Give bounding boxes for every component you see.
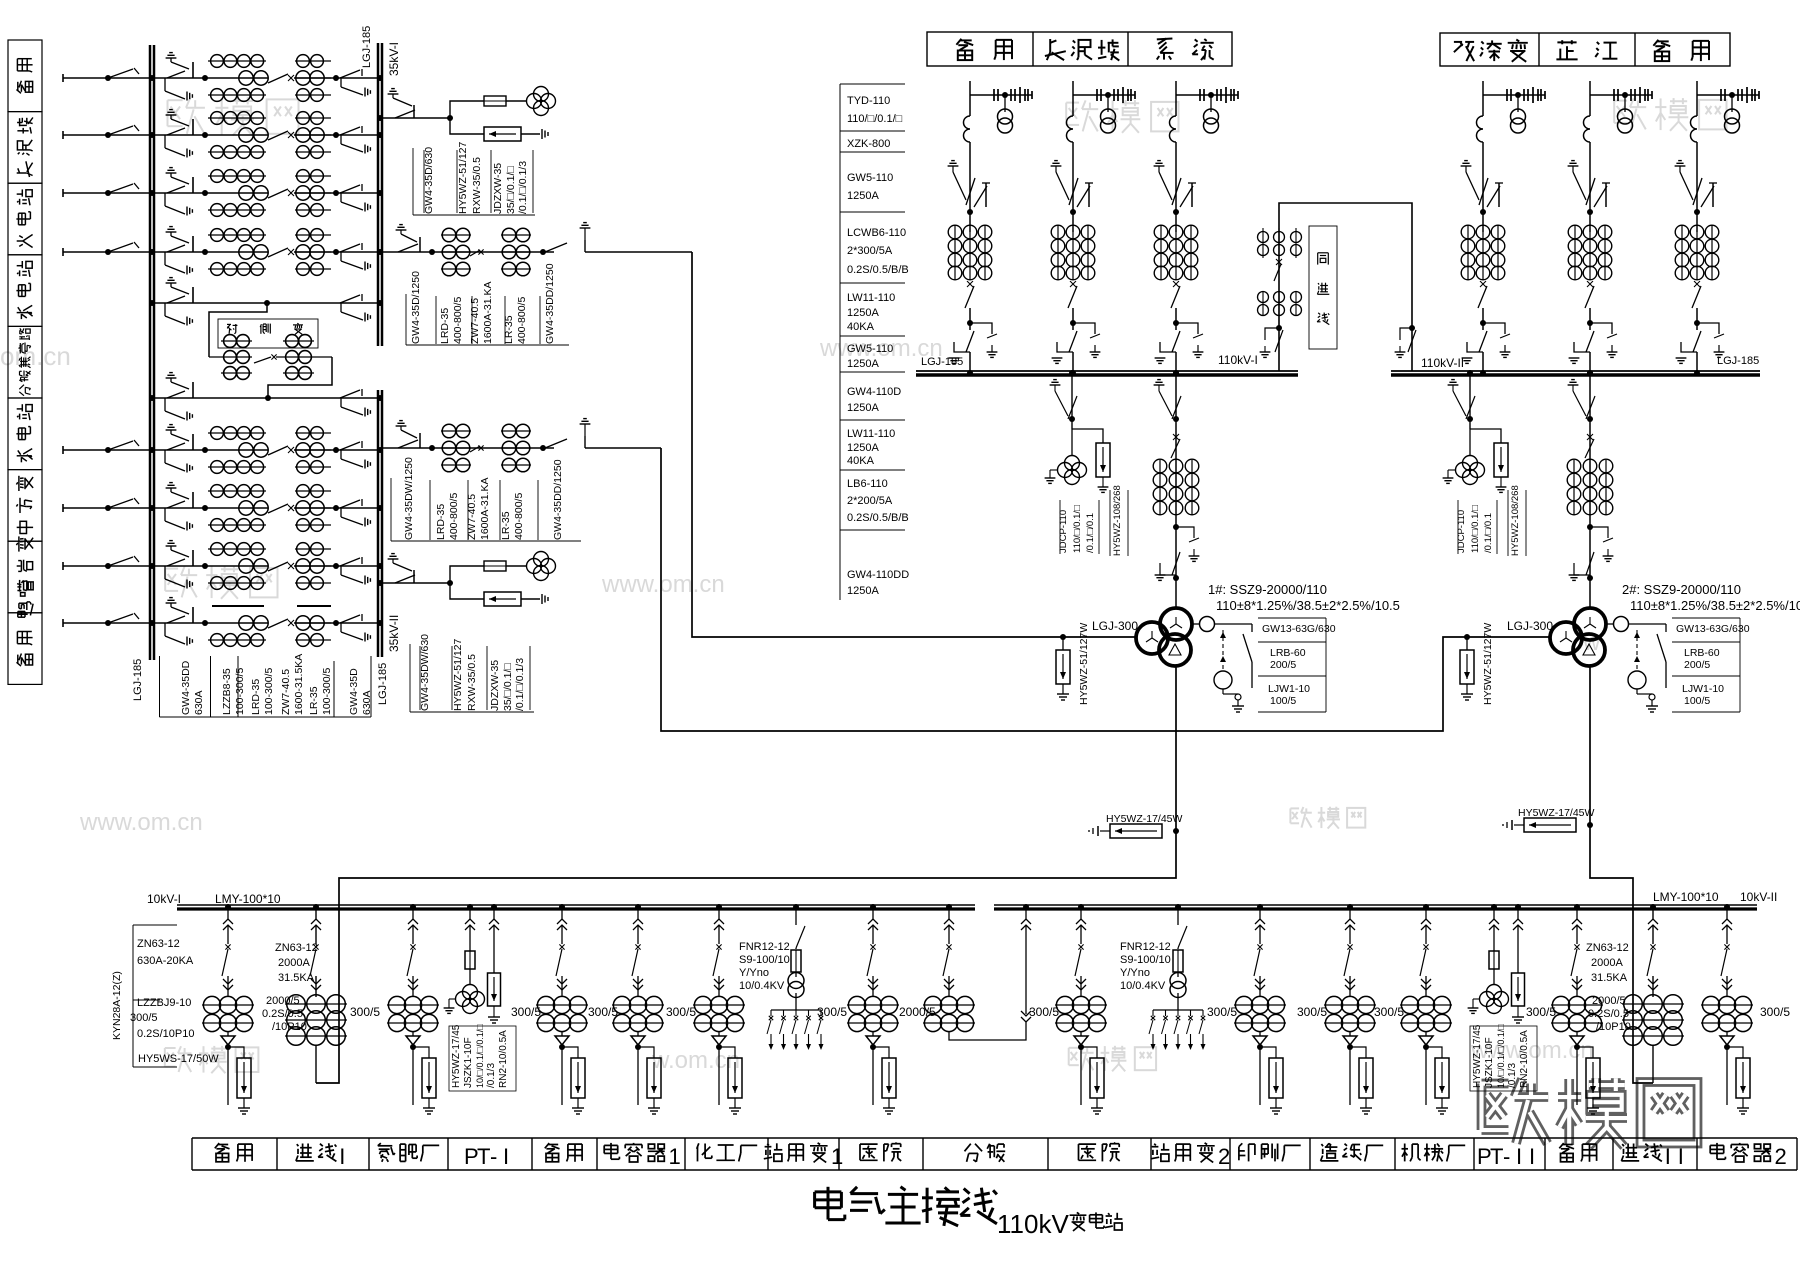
svg-text:200/5: 200/5 — [1270, 659, 1296, 671]
svg-text:Y/Yno: Y/Yno — [739, 967, 769, 979]
svg-text:100/5: 100/5 — [1684, 695, 1710, 707]
svg-text:LGJ-185: LGJ-185 — [921, 356, 963, 368]
svg-text:HY5WZ-17/45W: HY5WZ-17/45W — [1518, 807, 1595, 819]
svg-text:630A: 630A — [361, 690, 373, 715]
svg-text:HY5WZ-17/45W: HY5WZ-17/45W — [1106, 813, 1183, 825]
svg-text:GW4-35DW/1250: GW4-35DW/1250 — [403, 457, 415, 540]
svg-text:1: 1 — [831, 1144, 843, 1169]
svg-text:1250A: 1250A — [847, 585, 879, 597]
svg-text:0.2S/0.5/B/B: 0.2S/0.5/B/B — [847, 264, 909, 276]
svg-text:0.2S/0.5: 0.2S/0.5 — [262, 1008, 303, 1020]
svg-text:400-800/5: 400-800/5 — [452, 297, 464, 344]
svg-text:10/0.4KV: 10/0.4KV — [1120, 980, 1166, 992]
svg-text:T: T — [477, 1144, 490, 1169]
svg-text:I: I — [1665, 1144, 1671, 1169]
svg-text:2: 2 — [1218, 1144, 1230, 1169]
svg-text:/0.1/3: /0.1/3 — [1507, 1063, 1518, 1088]
svg-text:1250A: 1250A — [847, 442, 879, 454]
svg-text:1250A: 1250A — [847, 358, 879, 370]
svg-text:110/□/0.1/□: 110/□/0.1/□ — [847, 113, 903, 125]
svg-text:1600A-31.KA: 1600A-31.KA — [479, 478, 491, 540]
svg-text:100-300/5: 100-300/5 — [234, 668, 246, 715]
svg-text:LMY-100*10: LMY-100*10 — [1653, 890, 1719, 904]
svg-text:100/5: 100/5 — [1270, 695, 1296, 707]
svg-text:300/5: 300/5 — [588, 1005, 618, 1019]
svg-text:35kV-II: 35kV-II — [387, 615, 401, 652]
svg-text:LZZB8-35: LZZB8-35 — [221, 668, 233, 715]
svg-text:T: T — [1490, 1144, 1503, 1169]
svg-text:LRD-35: LRD-35 — [439, 308, 451, 344]
svg-text:LW11-110: LW11-110 — [847, 292, 895, 304]
svg-text:I: I — [1678, 1144, 1684, 1169]
svg-text:LJW1-10: LJW1-10 — [1682, 683, 1724, 695]
svg-text:LB6-110: LB6-110 — [847, 478, 888, 490]
svg-text:10kV-II: 10kV-II — [1740, 890, 1777, 904]
svg-text:/0.1/3: /0.1/3 — [486, 1063, 497, 1088]
svg-text:S9-100/10: S9-100/10 — [1120, 954, 1171, 966]
svg-text:2000/5: 2000/5 — [899, 1005, 936, 1019]
svg-text:RXW-35/0.5: RXW-35/0.5 — [466, 654, 478, 711]
svg-text:RN2-10/0.5A: RN2-10/0.5A — [1519, 1030, 1530, 1088]
svg-text:110kV: 110kV — [997, 1209, 1069, 1239]
svg-text:/10P10: /10P10 — [272, 1021, 307, 1033]
svg-text:1: 1 — [669, 1144, 681, 1169]
svg-text:2#: SSZ9-20000/110: 2#: SSZ9-20000/110 — [1622, 582, 1741, 597]
svg-text:GW4-35D: GW4-35D — [348, 668, 360, 715]
svg-text:LGJ-300: LGJ-300 — [1507, 619, 1553, 633]
svg-text:1#: SSZ9-20000/110: 1#: SSZ9-20000/110 — [1208, 582, 1327, 597]
svg-text:RXW-35/0.5: RXW-35/0.5 — [471, 157, 483, 214]
svg-text:I: I — [503, 1144, 509, 1169]
svg-text:0.2S/0.5: 0.2S/0.5 — [1588, 1008, 1629, 1020]
svg-text:GW4-35DW/630: GW4-35DW/630 — [419, 634, 431, 711]
svg-text:-: - — [490, 1144, 497, 1169]
svg-text:40KA: 40KA — [847, 321, 875, 333]
svg-text:300/5: 300/5 — [130, 1012, 158, 1024]
svg-text:I: I — [1529, 1144, 1535, 1169]
svg-text:31.5KA: 31.5KA — [1591, 972, 1628, 984]
svg-text:10kV-I: 10kV-I — [147, 892, 181, 906]
svg-text:300/5: 300/5 — [1526, 1005, 1556, 1019]
svg-text:LGJ-185: LGJ-185 — [132, 659, 144, 701]
svg-text:LGJ-300: LGJ-300 — [1092, 619, 1138, 633]
svg-text:/0.1/□/0.1: /0.1/□/0.1 — [1085, 513, 1096, 553]
svg-text:10/0.4KV: 10/0.4KV — [739, 980, 785, 992]
svg-text:HY5WZ-108/268: HY5WZ-108/268 — [1112, 485, 1123, 556]
svg-text:2000/5: 2000/5 — [1592, 995, 1626, 1007]
svg-text:400-800/5: 400-800/5 — [516, 297, 528, 344]
svg-text:300/5: 300/5 — [350, 1005, 380, 1019]
svg-text:300/5: 300/5 — [1760, 1005, 1790, 1019]
svg-text:ZN63-12: ZN63-12 — [1586, 942, 1629, 954]
svg-text:2*300/5A: 2*300/5A — [847, 245, 893, 257]
svg-text:GW4-35D/1250: GW4-35D/1250 — [410, 271, 422, 344]
svg-text:LGJ-185: LGJ-185 — [361, 26, 373, 68]
svg-text:110/□/0.1/□: 110/□/0.1/□ — [1072, 505, 1083, 553]
svg-text:XZK-800: XZK-800 — [847, 138, 890, 150]
svg-text:LMY-100*10: LMY-100*10 — [215, 892, 281, 906]
svg-text:GW4-35DD/1250: GW4-35DD/1250 — [544, 263, 556, 344]
svg-text:FNR12-12: FNR12-12 — [1120, 941, 1171, 953]
svg-text:Y/Yno: Y/Yno — [1120, 967, 1150, 979]
svg-text:JSZK1-10F: JSZK1-10F — [463, 1037, 474, 1088]
svg-text:KYN28A-12(Z): KYN28A-12(Z) — [111, 971, 123, 1040]
svg-text:35/□/0.1/□: 35/□/0.1/□ — [502, 663, 514, 711]
svg-text:-: - — [1503, 1144, 1510, 1169]
svg-text:110/□/0.1/□: 110/□/0.1/□ — [1470, 505, 1481, 553]
svg-text:JDZXW-35: JDZXW-35 — [492, 163, 504, 214]
svg-text:LR-35: LR-35 — [500, 511, 512, 540]
svg-text:GW4-110D: GW4-110D — [847, 386, 901, 398]
svg-text:GW13-63G/630: GW13-63G/630 — [1262, 623, 1336, 635]
svg-text:HY5WZ-17/45: HY5WZ-17/45 — [451, 1024, 462, 1088]
svg-text:LRD-35: LRD-35 — [435, 504, 447, 540]
svg-text:100-300/5: 100-300/5 — [321, 668, 333, 715]
svg-text:400-800/5: 400-800/5 — [448, 493, 460, 540]
svg-text:HY5WZ-51/127W: HY5WZ-51/127W — [1482, 623, 1494, 705]
svg-text:HY5WZ-108/268: HY5WZ-108/268 — [1510, 485, 1521, 556]
svg-text:300/5: 300/5 — [1374, 1005, 1404, 1019]
svg-text:10/□/0.1/□/0.1/□: 10/□/0.1/□/0.1/□ — [475, 1024, 485, 1088]
svg-text:www.om.cn: www.om.cn — [601, 571, 725, 598]
svg-text:JSZK1-10F: JSZK1-10F — [1484, 1037, 1495, 1088]
svg-text:300/5: 300/5 — [511, 1005, 541, 1019]
svg-text:110kV-I: 110kV-I — [1218, 353, 1258, 367]
svg-text:FNR12-12: FNR12-12 — [739, 941, 790, 953]
svg-text:TYD-110: TYD-110 — [847, 95, 890, 107]
svg-text:LRD-35: LRD-35 — [250, 679, 262, 715]
svg-text:1250A: 1250A — [847, 307, 879, 319]
svg-text:35/□/0.1/□: 35/□/0.1/□ — [505, 166, 517, 214]
svg-text:S9-100/10: S9-100/10 — [739, 954, 790, 966]
svg-text:w.om.cn: w.om.cn — [651, 1047, 740, 1074]
svg-text:/10P10: /10P10 — [1596, 1021, 1631, 1033]
svg-text:1600A-31.KA: 1600A-31.KA — [482, 282, 494, 344]
svg-text:630A-20KA: 630A-20KA — [137, 955, 194, 967]
svg-text:1250A: 1250A — [847, 190, 879, 202]
svg-text:LZZBJ9-10: LZZBJ9-10 — [137, 997, 191, 1009]
svg-text:LCWB6-110: LCWB6-110 — [847, 227, 906, 239]
svg-text:400-800/5: 400-800/5 — [513, 493, 525, 540]
svg-text:LR-35: LR-35 — [308, 686, 320, 715]
svg-text:LRB-60: LRB-60 — [1270, 647, 1306, 659]
svg-text:GW4-35DD: GW4-35DD — [180, 660, 192, 715]
svg-text:110±8*1.25%/38.5±2*2.5%/10.5: 110±8*1.25%/38.5±2*2.5%/10.5 — [1630, 598, 1800, 613]
svg-text:GW4-110DD: GW4-110DD — [847, 569, 909, 581]
svg-text:2000A: 2000A — [1591, 957, 1623, 969]
svg-text:/0.1/□/0.1/3: /0.1/□/0.1/3 — [517, 161, 529, 214]
svg-text:HY5WS-17/50W: HY5WS-17/50W — [138, 1053, 219, 1065]
svg-text:40KA: 40KA — [847, 455, 875, 467]
svg-text:1600-31.5KA: 1600-31.5KA — [293, 654, 305, 715]
svg-text:GW5-110: GW5-110 — [847, 343, 893, 355]
svg-text:ZN63-12: ZN63-12 — [137, 938, 180, 950]
svg-text:HY5WZ-17/45: HY5WZ-17/45 — [1472, 1024, 1483, 1088]
svg-text:LGJ-185: LGJ-185 — [1717, 355, 1759, 367]
svg-text:110±8*1.25%/38.5±2*2.5%/10.5: 110±8*1.25%/38.5±2*2.5%/10.5 — [1216, 598, 1400, 613]
svg-text:300/5: 300/5 — [666, 1005, 696, 1019]
svg-text:/0.1/□/0.1: /0.1/□/0.1 — [1483, 513, 1494, 553]
svg-text:0.2S/10P10: 0.2S/10P10 — [137, 1028, 195, 1040]
svg-text:31.5KA: 31.5KA — [278, 972, 315, 984]
svg-text:HY5WZ-51/127W: HY5WZ-51/127W — [1078, 623, 1090, 705]
svg-text:I: I — [339, 1144, 345, 1169]
svg-text:0.2S/0.5/B/B: 0.2S/0.5/B/B — [847, 512, 909, 524]
svg-text:2000/5: 2000/5 — [266, 995, 300, 1007]
svg-text:JDZXW-35: JDZXW-35 — [489, 660, 501, 711]
svg-text:300/5: 300/5 — [1207, 1005, 1237, 1019]
svg-text:1250A: 1250A — [847, 402, 879, 414]
svg-text:LJW1-10: LJW1-10 — [1268, 683, 1310, 695]
svg-text:200/5: 200/5 — [1684, 659, 1710, 671]
svg-text:LRB-60: LRB-60 — [1684, 647, 1720, 659]
svg-text:LGJ-185: LGJ-185 — [377, 663, 389, 705]
svg-text:100-300/5: 100-300/5 — [263, 668, 275, 715]
svg-text:2: 2 — [1775, 1144, 1787, 1169]
svg-text:630A: 630A — [193, 690, 205, 715]
svg-text:110kV-II: 110kV-II — [1421, 356, 1464, 370]
svg-text:GW4-35DD/1250: GW4-35DD/1250 — [552, 459, 564, 540]
svg-text:10/□/0.1/□/0.1/□: 10/□/0.1/□/0.1/□ — [1496, 1024, 1506, 1088]
svg-text:GW13-63G/630: GW13-63G/630 — [1676, 623, 1750, 635]
svg-text:GW5-110: GW5-110 — [847, 172, 893, 184]
svg-text:RN2-10/0.5A: RN2-10/0.5A — [498, 1030, 509, 1088]
svg-text:om.cn: om.cn — [0, 341, 71, 371]
svg-text:ZW7-40.5: ZW7-40.5 — [280, 669, 292, 715]
svg-text:HY5WZ-51/127: HY5WZ-51/127 — [452, 638, 464, 711]
svg-text:LW11-110: LW11-110 — [847, 428, 895, 440]
svg-text:I: I — [1516, 1144, 1522, 1169]
svg-text:HY5WZ-51/127: HY5WZ-51/127 — [457, 141, 469, 214]
svg-text:ZW7-40.5: ZW7-40.5 — [469, 298, 481, 344]
svg-text:2*200/5A: 2*200/5A — [847, 495, 893, 507]
svg-text:300/5: 300/5 — [817, 1005, 847, 1019]
svg-text:35kV-I: 35kV-I — [387, 42, 401, 76]
svg-text:300/5: 300/5 — [1297, 1005, 1327, 1019]
svg-text:GW4-35D/630: GW4-35D/630 — [423, 147, 435, 214]
svg-text:2000A: 2000A — [278, 957, 310, 969]
svg-text:300/5: 300/5 — [1029, 1005, 1059, 1019]
svg-text:www.om.cn: www.om.cn — [79, 809, 203, 836]
svg-text:ZN63-12: ZN63-12 — [275, 942, 318, 954]
svg-text:/0.1/□/0.1/3: /0.1/□/0.1/3 — [514, 658, 526, 711]
